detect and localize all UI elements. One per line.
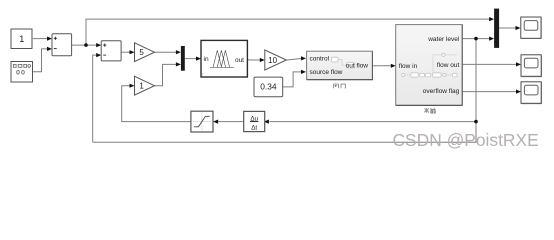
svg-text:out: out	[235, 57, 244, 64]
svg-text:0.34: 0.34	[260, 82, 277, 92]
svg-text:flow in: flow in	[399, 63, 418, 70]
svg-text:source flow: source flow	[310, 69, 343, 76]
svg-text:1: 1	[19, 34, 24, 44]
svg-text:flow out: flow out	[437, 62, 460, 69]
svg-text:10: 10	[268, 56, 277, 65]
svg-text:overflow flag: overflow flag	[423, 88, 460, 95]
svg-text:water level: water level	[427, 36, 460, 43]
svg-text:5: 5	[139, 48, 144, 57]
svg-text:in: in	[204, 56, 209, 63]
svg-text:1: 1	[139, 82, 144, 91]
svg-text:out flow: out flow	[346, 62, 369, 69]
svg-text:control: control	[310, 56, 330, 63]
svg-text:CSDN @PoistRXE: CSDN @PoistRXE	[393, 130, 539, 150]
svg-text:Δt: Δt	[251, 124, 257, 131]
